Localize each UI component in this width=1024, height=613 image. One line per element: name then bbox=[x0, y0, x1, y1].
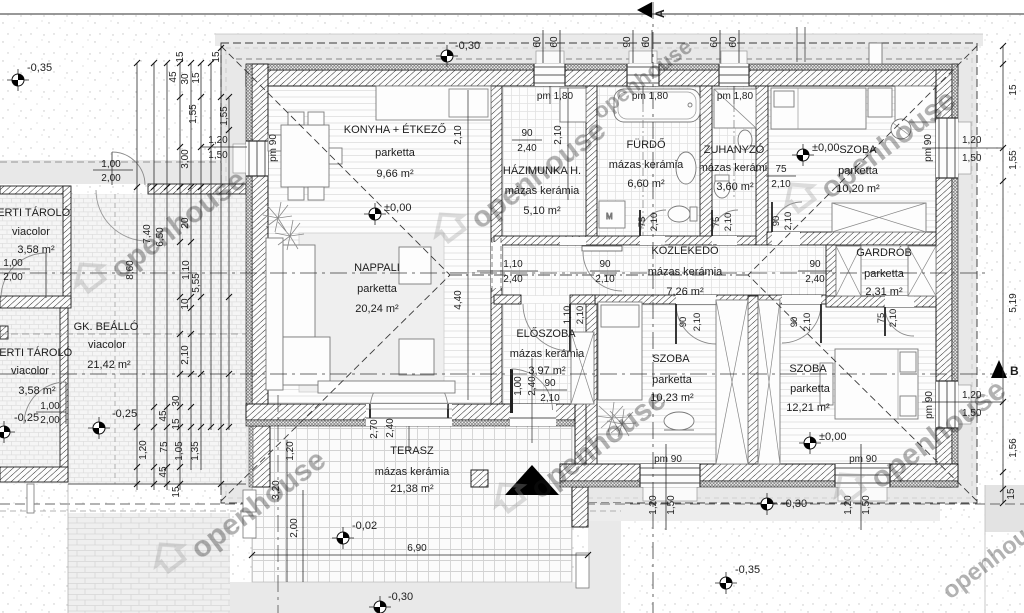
svg-text:SZOBA: SZOBA bbox=[652, 353, 690, 365]
svg-text:75: 75 bbox=[876, 313, 887, 324]
tv board bbox=[318, 381, 455, 393]
szoba 12,21 parquet bbox=[758, 307, 936, 464]
svg-text:45: 45 bbox=[158, 466, 169, 478]
room floors bbox=[268, 86, 936, 464]
svg-text:SZOBA: SZOBA bbox=[789, 363, 827, 375]
svg-text:5,10 m²: 5,10 m² bbox=[523, 205, 561, 217]
gardrób closets X bbox=[836, 246, 861, 296]
plant szoba10 bbox=[596, 402, 636, 437]
terrace dims bbox=[252, 554, 588, 556]
coffee tables bbox=[399, 247, 431, 284]
corridor bottom wall bbox=[595, 295, 836, 304]
szobaTR stool bbox=[891, 119, 911, 139]
carport gate size bbox=[93, 159, 133, 184]
exterior walls bbox=[246, 64, 958, 487]
svg-text:pm 90: pm 90 bbox=[924, 391, 935, 419]
svg-text:1,00: 1,00 bbox=[101, 159, 121, 170]
carport gate inner arc bbox=[96, 190, 147, 241]
marker -0,25 carport bbox=[88, 417, 110, 439]
szoba 10,23 parquet bbox=[597, 304, 716, 464]
svg-text:4,40: 4,40 bbox=[453, 290, 464, 310]
svg-text:pm 90: pm 90 bbox=[654, 454, 682, 465]
carport roof gray band bbox=[0, 160, 221, 184]
storage room2 door size bbox=[36, 401, 66, 426]
carport gate opening + arc bbox=[112, 152, 145, 185]
svg-text:1,50: 1,50 bbox=[208, 150, 228, 161]
fürdő tile bbox=[597, 86, 700, 236]
svg-text:45: 45 bbox=[158, 410, 169, 422]
svg-text:2,40: 2,40 bbox=[805, 274, 825, 285]
window fürdő top bbox=[627, 64, 659, 86]
svg-text:2,00: 2,00 bbox=[40, 415, 60, 426]
terrace right wall stub bbox=[572, 487, 588, 527]
section arrow A bbox=[637, 2, 652, 18]
szobaTR door bbox=[772, 202, 802, 245]
svg-text:90: 90 bbox=[544, 378, 556, 389]
svg-text:75: 75 bbox=[711, 217, 722, 228]
szoba10 door bbox=[676, 295, 716, 344]
window szoba10 bottom bbox=[640, 464, 700, 487]
terrace pillar bbox=[471, 470, 488, 487]
svg-text:-0,30: -0,30 bbox=[455, 40, 480, 52]
wardrobe dividing wall bbox=[748, 296, 758, 464]
wall konyha | házimunka/előszoba bbox=[491, 86, 502, 404]
marker ±0,00 szoba TR bbox=[792, 144, 814, 166]
svg-text:45: 45 bbox=[168, 71, 179, 83]
svg-text:2,10: 2,10 bbox=[692, 313, 703, 332]
fürdő door bbox=[640, 210, 666, 245]
szobaTR bed bbox=[771, 88, 866, 129]
svg-text:-0,25: -0,25 bbox=[112, 408, 137, 420]
svg-text:75: 75 bbox=[159, 441, 170, 453]
terrace double door bbox=[366, 370, 452, 426]
left chain rotated labels bbox=[125, 51, 230, 498]
left wall bbox=[252, 64, 268, 404]
storage room1 walls bbox=[0, 186, 70, 194]
storage room2 walls bbox=[60, 308, 68, 482]
left carport / storage complex bbox=[0, 152, 246, 613]
pm labels top windows bbox=[537, 91, 754, 102]
left chain tick marks bbox=[134, 45, 232, 487]
door dim rotated pairs bbox=[562, 212, 899, 332]
svg-text:90: 90 bbox=[599, 259, 611, 270]
storage room1 door arc bbox=[1, 253, 46, 298]
svg-text:1,10: 1,10 bbox=[503, 259, 523, 270]
svg-text:viacolor: viacolor bbox=[88, 339, 126, 351]
gray band below terrace bbox=[230, 582, 588, 613]
svg-text:30: 30 bbox=[180, 73, 191, 85]
wall fürdő | zuhanyzó bbox=[700, 86, 712, 245]
storage room2 door arc bbox=[24, 382, 66, 424]
section line B horizontal bbox=[0, 373, 1007, 375]
svg-text:2,10: 2,10 bbox=[649, 213, 660, 232]
center line horizontal bbox=[0, 272, 990, 274]
svg-text:±0,00: ±0,00 bbox=[384, 202, 411, 214]
svg-text:60: 60 bbox=[532, 36, 543, 48]
svg-text:ZUHANYZÓ: ZUHANYZÓ bbox=[704, 143, 765, 156]
zuhanyzó tile bbox=[712, 86, 756, 236]
carport roof dashed edge bbox=[0, 161, 221, 163]
gardrób bottom wall bbox=[826, 296, 936, 307]
gardrób door bbox=[885, 296, 914, 336]
svg-text:1,55: 1,55 bbox=[1008, 150, 1019, 170]
zuhanyzó shower bbox=[714, 89, 756, 128]
svg-text:2,10: 2,10 bbox=[802, 313, 813, 332]
házimunka counter bbox=[560, 88, 586, 122]
kitchen window dim bbox=[200, 146, 247, 148]
svg-text:1,20: 1,20 bbox=[648, 495, 659, 515]
svg-text:30: 30 bbox=[171, 395, 182, 407]
svg-text:2,40: 2,40 bbox=[527, 376, 538, 396]
left dimension chain vertical lines bbox=[137, 48, 229, 490]
svg-text:90: 90 bbox=[809, 259, 821, 270]
svg-text:15: 15 bbox=[1008, 84, 1019, 96]
svg-text:ELŐSZOBA: ELŐSZOBA bbox=[516, 326, 576, 340]
fraction labels bbox=[477, 128, 832, 404]
svg-text:3,60 m²: 3,60 m² bbox=[716, 181, 754, 193]
roof box top right bbox=[869, 43, 882, 64]
szobaTR bottom wall bbox=[767, 232, 936, 245]
svg-text:mázas kerámia: mázas kerámia bbox=[375, 466, 450, 478]
házimunka door bbox=[560, 237, 622, 291]
marker -0,35 bottom bbox=[715, 572, 737, 594]
room labels bbox=[0, 122, 912, 495]
carport dashes outline bbox=[0, 333, 246, 335]
svg-text:parketta: parketta bbox=[790, 383, 831, 395]
interior room height dims bbox=[467, 90, 469, 400]
szoba12 bench bbox=[820, 363, 833, 405]
svg-text:2,10: 2,10 bbox=[723, 213, 734, 232]
storage room1 door size bbox=[0, 258, 30, 283]
marker -0,02 terasz bbox=[332, 527, 354, 549]
svg-text:TERASZ: TERASZ bbox=[390, 445, 434, 457]
előszoba-közlekedő door arc bbox=[523, 296, 570, 351]
window openings bbox=[233, 51, 971, 501]
svg-text:60: 60 bbox=[641, 36, 652, 48]
svg-text:viacolor: viacolor bbox=[11, 365, 49, 377]
svg-text:15: 15 bbox=[171, 486, 182, 498]
svg-text:±0,00: ±0,00 bbox=[812, 142, 839, 154]
svg-text:mázas kerámia: mázas kerámia bbox=[609, 159, 684, 171]
brick paving bottom left bbox=[68, 513, 230, 613]
svg-text:-0,35: -0,35 bbox=[27, 62, 52, 74]
entrance door dims bbox=[513, 358, 538, 443]
nappali opening in wall bbox=[491, 242, 502, 288]
svg-text:KERTI TÁROLÓ: KERTI TÁROLÓ bbox=[0, 346, 73, 359]
svg-text:12,21 m²: 12,21 m² bbox=[786, 402, 830, 414]
window szoba12 bottom bbox=[835, 464, 890, 487]
ridge line bbox=[450, 274, 748, 276]
marker -0,30 bottom center bbox=[369, 596, 391, 613]
svg-text:mázas kerámia: mázas kerámia bbox=[510, 348, 585, 360]
small posts below carport bbox=[27, 484, 34, 513]
svg-text:2,10: 2,10 bbox=[783, 212, 794, 231]
fürdő wc bbox=[668, 206, 690, 222]
right wall bbox=[936, 70, 952, 487]
svg-text:2,10: 2,10 bbox=[595, 274, 615, 285]
left edge wall mark bbox=[0, 326, 8, 339]
nappali carpet bbox=[299, 233, 444, 392]
svg-text:1,00: 1,00 bbox=[40, 401, 60, 412]
svg-text:90: 90 bbox=[771, 216, 782, 227]
svg-text:5,55: 5,55 bbox=[191, 273, 202, 293]
svg-text:15: 15 bbox=[1006, 488, 1017, 500]
svg-text:6,60 m²: 6,60 m² bbox=[627, 178, 665, 190]
svg-text:1,35: 1,35 bbox=[190, 441, 201, 461]
svg-text:NAPPALI: NAPPALI bbox=[354, 262, 400, 274]
zuhanyzó basin bbox=[738, 130, 752, 150]
előszoba tile bbox=[502, 245, 586, 404]
exterior sills bbox=[536, 51, 564, 64]
svg-text:1,00: 1,00 bbox=[513, 376, 524, 396]
fürdő washbasin bbox=[676, 152, 696, 184]
svg-text:60: 60 bbox=[549, 36, 560, 48]
svg-text:-0,30: -0,30 bbox=[388, 591, 413, 603]
svg-text:2,70: 2,70 bbox=[369, 419, 380, 439]
svg-text:parketta: parketta bbox=[864, 268, 905, 280]
szoba10 shelf line bbox=[597, 433, 716, 435]
szobaTR nightstand bbox=[868, 88, 892, 117]
svg-text:1,56: 1,56 bbox=[1008, 438, 1019, 458]
svg-text:1,50: 1,50 bbox=[861, 495, 872, 515]
eaves gray band around building bbox=[215, 34, 983, 503]
svg-text:1,55: 1,55 bbox=[188, 104, 199, 124]
svg-text:2,10: 2,10 bbox=[888, 309, 899, 328]
outer face dashed line top bbox=[236, 58, 968, 60]
neighbour gray block bottom right bbox=[985, 485, 1024, 532]
wall zuhanyzó | szobaTR bbox=[756, 86, 768, 245]
svg-text:20,24 m²: 20,24 m² bbox=[355, 303, 399, 315]
előszoba closet X bbox=[571, 332, 594, 404]
svg-text:2,31 m²: 2,31 m² bbox=[865, 286, 903, 298]
zuhanyzó wc bbox=[714, 176, 730, 198]
window szoba12 right bbox=[936, 381, 958, 428]
svg-text:1,10: 1,10 bbox=[562, 306, 573, 325]
marker -0,30 bottom bbox=[756, 493, 778, 515]
svg-text:2,10: 2,10 bbox=[180, 345, 191, 365]
elevation markers bbox=[0, 40, 846, 613]
svg-text:3,58 m²: 3,58 m² bbox=[18, 385, 56, 397]
kitchen table bbox=[281, 125, 329, 187]
svg-text:2,40: 2,40 bbox=[385, 418, 396, 438]
nappali/előszoba bottom wall bbox=[246, 404, 580, 420]
marker -0,35 top left bbox=[7, 69, 29, 91]
svg-text:1,05: 1,05 bbox=[174, 441, 185, 461]
right wall window dims bbox=[922, 147, 1004, 149]
svg-text:5,19: 5,19 bbox=[1008, 293, 1019, 313]
terrace left posts bbox=[243, 490, 256, 512]
svg-text:1,20: 1,20 bbox=[138, 440, 149, 460]
svg-text:mázas kerámia: mázas kerámia bbox=[648, 266, 723, 278]
top wall bbox=[246, 70, 958, 86]
házimunka tile bbox=[502, 86, 586, 236]
közlekedő tile bbox=[586, 245, 826, 295]
plant nappali bbox=[263, 202, 304, 250]
bottom wall east section bbox=[560, 464, 958, 481]
svg-text:FÜRDŐ: FÜRDŐ bbox=[626, 137, 666, 151]
sofa bbox=[266, 238, 283, 390]
kitchen counter bbox=[376, 86, 491, 120]
svg-text:parketta: parketta bbox=[652, 374, 693, 386]
szoba10 bed bbox=[598, 302, 642, 400]
gardrób parquet bbox=[836, 245, 936, 296]
chairs bbox=[288, 112, 304, 125]
building footprint white cutout bbox=[246, 64, 958, 487]
svg-text:GK. BEÁLLÓ: GK. BEÁLLÓ bbox=[74, 320, 139, 333]
top border line bbox=[0, 13, 1024, 15]
roof hip dashed lines bbox=[221, 46, 977, 501]
window konyha left bbox=[246, 141, 268, 176]
svg-text:6,90: 6,90 bbox=[407, 543, 427, 554]
entrance door bbox=[510, 369, 556, 426]
svg-text:1,50: 1,50 bbox=[962, 153, 982, 164]
szoba12 door bbox=[782, 295, 821, 343]
window zuhanyzó top bbox=[719, 64, 749, 86]
svg-text:21,42 m²: 21,42 m² bbox=[87, 359, 131, 371]
wardrobe X panels between szoba10 and szoba12 bbox=[716, 300, 748, 464]
szoba10 pot table bbox=[664, 412, 694, 430]
wall előszoba | szoba10 bbox=[586, 295, 597, 464]
svg-text:KERTI TÁROLÓ: KERTI TÁROLÓ bbox=[0, 206, 71, 219]
svg-text:2,40: 2,40 bbox=[517, 143, 537, 154]
center line vertical left bbox=[277, 395, 279, 613]
terrace left wall bbox=[252, 426, 270, 487]
svg-text:75: 75 bbox=[775, 164, 787, 175]
entrance arrow triangle bbox=[505, 465, 559, 495]
svg-text:KÖZLEKEDŐ: KÖZLEKEDŐ bbox=[651, 243, 719, 257]
chimney stub bbox=[796, 27, 798, 62]
marker ±0,00 szoba 12 bbox=[799, 432, 821, 454]
dashed property line at -0,30 level bbox=[0, 503, 1024, 505]
wall házimunka | fürdő bbox=[586, 86, 597, 245]
svg-text:15: 15 bbox=[175, 51, 186, 63]
svg-text:2,00: 2,00 bbox=[289, 518, 300, 538]
szobaTR wardrobe top bbox=[895, 86, 935, 122]
terrace bbox=[243, 420, 589, 588]
svg-text:2,40: 2,40 bbox=[503, 274, 523, 285]
svg-text:3,58 m²: 3,58 m² bbox=[17, 244, 55, 256]
svg-text:GARDRÓB: GARDRÓB bbox=[856, 246, 912, 259]
marker ±0,00 konyha bbox=[364, 203, 386, 225]
svg-text:1,20: 1,20 bbox=[962, 135, 982, 146]
eaves dashed outline bbox=[221, 43, 977, 503]
szoba top-right parquet bbox=[768, 86, 936, 232]
terrace cutout bbox=[252, 404, 588, 503]
svg-text:3,00: 3,00 bbox=[180, 149, 191, 169]
svg-text:KONYHA + ÉTKEZŐ: KONYHA + ÉTKEZŐ bbox=[344, 122, 447, 136]
svg-text:pm 90: pm 90 bbox=[923, 134, 934, 162]
window szobaTR right bbox=[936, 118, 958, 178]
svg-text:±0,00: ±0,00 bbox=[819, 431, 846, 443]
marker -0,30 top bbox=[436, 45, 458, 67]
svg-text:60: 60 bbox=[728, 36, 739, 48]
carport top wall segment bbox=[148, 184, 246, 194]
svg-text:A: A bbox=[653, 9, 667, 18]
svg-text:pm 1,80: pm 1,80 bbox=[717, 91, 754, 102]
terrace door dims bbox=[369, 418, 409, 450]
szobaTR closet X bbox=[832, 203, 926, 232]
svg-text:-0,25: -0,25 bbox=[14, 412, 39, 424]
zuhanyzó door bbox=[712, 210, 738, 245]
svg-text:2,10: 2,10 bbox=[540, 393, 560, 404]
svg-text:viacolor: viacolor bbox=[12, 226, 50, 238]
svg-text:parketta: parketta bbox=[357, 283, 398, 295]
svg-text:60: 60 bbox=[709, 36, 720, 48]
interior walls bbox=[491, 86, 936, 464]
svg-text:1,20: 1,20 bbox=[208, 135, 228, 146]
konyha+nappali parquet bbox=[268, 86, 491, 404]
marker -0,25 left bbox=[0, 421, 15, 443]
fürdő bathtub bbox=[614, 89, 700, 122]
svg-text:1,00: 1,00 bbox=[3, 258, 23, 269]
svg-text:parketta: parketta bbox=[375, 147, 416, 159]
svg-text:2,10: 2,10 bbox=[575, 306, 586, 325]
svg-text:15: 15 bbox=[191, 72, 202, 84]
svg-text:75: 75 bbox=[637, 217, 648, 228]
svg-text:90: 90 bbox=[678, 317, 689, 328]
carport paving bbox=[0, 194, 246, 484]
section arrow B bbox=[991, 360, 1007, 378]
right edge dim line bbox=[1002, 46, 1004, 503]
svg-text:10: 10 bbox=[180, 298, 191, 310]
svg-text:15: 15 bbox=[171, 418, 182, 430]
window házimunka top bbox=[534, 64, 565, 86]
bottom window dims bbox=[666, 444, 861, 530]
svg-text:2,00: 2,00 bbox=[3, 272, 23, 283]
svg-text:-0,02: -0,02 bbox=[352, 520, 377, 532]
svg-text:21,38 m²: 21,38 m² bbox=[390, 483, 434, 495]
gardrób left wall bbox=[826, 245, 836, 304]
svg-text:1,50: 1,50 bbox=[666, 495, 677, 515]
szoba12 bed bbox=[835, 349, 918, 419]
svg-text:M: M bbox=[606, 212, 613, 221]
svg-text:2,10: 2,10 bbox=[453, 125, 464, 145]
window centerlines bbox=[643, 104, 734, 236]
svg-text:-0,30: -0,30 bbox=[782, 498, 807, 510]
svg-text:9,66 m²: 9,66 m² bbox=[376, 168, 414, 180]
washing machine M bbox=[599, 201, 625, 228]
svg-text:2,00: 2,00 bbox=[101, 173, 121, 184]
svg-text:90: 90 bbox=[789, 317, 800, 328]
svg-text:90: 90 bbox=[622, 36, 633, 48]
svg-text:-0,35: -0,35 bbox=[735, 564, 760, 576]
svg-text:1,55: 1,55 bbox=[219, 106, 230, 126]
svg-text:3,97 m²: 3,97 m² bbox=[528, 365, 566, 377]
svg-text:B: B bbox=[1010, 364, 1019, 378]
furniture bbox=[266, 86, 936, 464]
svg-text:7,26 m²: 7,26 m² bbox=[666, 286, 704, 298]
svg-text:pm 90: pm 90 bbox=[268, 134, 279, 162]
svg-text:90: 90 bbox=[521, 128, 533, 139]
top window dim chain bbox=[543, 30, 739, 63]
szoba10 west exterior wall bbox=[575, 404, 597, 464]
corridor top wall bbox=[494, 236, 756, 245]
svg-text:mázas kerámi: mázas kerámi bbox=[699, 162, 767, 174]
svg-text:15: 15 bbox=[211, 51, 222, 63]
door openings and arcs bbox=[366, 202, 914, 426]
